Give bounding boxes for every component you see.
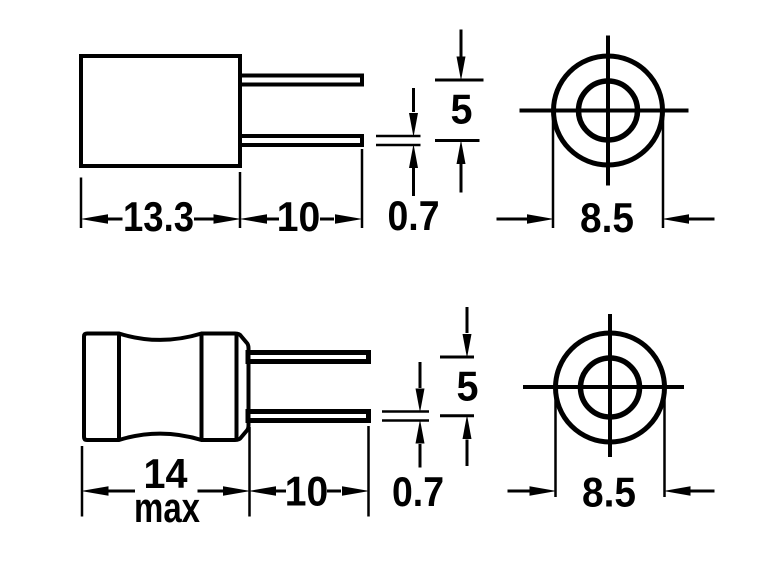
5 up arrow (top)	[457, 140, 466, 193]
extension line (body left, bottom)	[81, 446, 84, 517]
0.7 extension bars (top)	[376, 135, 421, 138]
extension line (circle left, bottom)	[554, 388, 557, 497]
outer circle (top end view)	[554, 56, 663, 165]
lead 1 (top variant)	[240, 76, 362, 85]
5 down arrow (top)	[457, 30, 466, 81]
inductor body (top variant, side view)	[81, 56, 240, 166]
extension line (circle right, bottom)	[663, 388, 666, 497]
0.7 down arrow (top)	[409, 88, 418, 137]
svg-text:8.5: 8.5	[580, 194, 634, 241]
svg-text:10: 10	[285, 468, 329, 515]
dimension 13.3 arrows	[81, 214, 242, 223]
5 dimension bars (bottom)	[440, 356, 474, 359]
dimension 10 arrows (top)	[240, 214, 363, 223]
0.7 extension bars (bottom)	[382, 410, 429, 413]
inductor body (bottom variant, wound coil side view)	[84, 334, 249, 441]
lead 2 (top variant)	[240, 136, 362, 145]
dimension 8.5 arrows (bottom)	[508, 486, 715, 495]
lead 2 (bottom variant)	[248, 412, 369, 421]
crosshair vertical (bottom end view)	[608, 314, 612, 457]
0.7 down arrow (bottom)	[416, 362, 425, 413]
5 down arrow (bottom)	[463, 307, 472, 358]
svg-text:0.7: 0.7	[392, 468, 444, 515]
svg-text:8.5: 8.5	[582, 469, 636, 516]
crosshair horizontal (bottom end view)	[523, 385, 684, 389]
extension line (lead end)	[361, 149, 364, 228]
crosshair vertical (top end view)	[606, 36, 610, 186]
inner circle (top end view)	[579, 81, 638, 140]
svg-text:5: 5	[457, 363, 479, 410]
lead 1 (bottom variant)	[248, 353, 369, 362]
outer circle (bottom end view)	[556, 333, 665, 442]
inner circle (bottom end view)	[581, 358, 640, 417]
crosshair horizontal (top end view)	[520, 109, 689, 113]
extension line (body left edge)	[80, 178, 83, 229]
svg-text:max: max	[134, 484, 201, 531]
svg-text:13.3: 13.3	[123, 193, 194, 240]
extension line (circle left, top)	[552, 111, 555, 228]
5 up arrow (bottom)	[463, 415, 472, 466]
dimension 8.5 arrows (top)	[497, 214, 715, 223]
svg-text:0.7: 0.7	[388, 192, 440, 239]
svg-text:10: 10	[277, 193, 321, 240]
extension line (cap right, bottom)	[248, 427, 251, 517]
extension line (circle right, top)	[662, 111, 665, 228]
cap boundary line (bottom body)	[235, 334, 239, 440]
0.7 up arrow (bottom)	[416, 420, 425, 468]
extension line (lead end, bottom)	[367, 426, 370, 517]
extension line (body right edge)	[239, 172, 242, 228]
dimension 14 arrows	[81, 486, 251, 495]
svg-text:5: 5	[451, 86, 473, 133]
dimension 10 arrows (bottom)	[249, 486, 370, 495]
flange line 1 (bottom body)	[117, 334, 121, 441]
flange line 2 (bottom body)	[200, 334, 204, 441]
5 dimension bars (top)	[435, 79, 484, 82]
0.7 up arrow (top)	[409, 144, 418, 196]
